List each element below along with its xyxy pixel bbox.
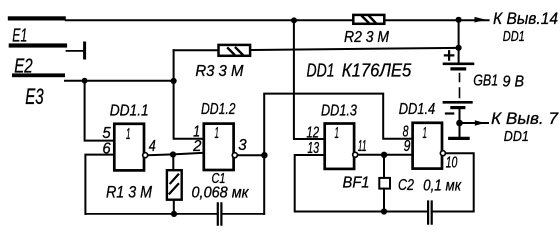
svg-text:R3 3 M: R3 3 M [195,63,244,80]
svg-text:GB1: GB1 [473,73,498,90]
svg-text:E2: E2 [14,56,33,78]
svg-text:К Выв. 7: К Выв. 7 [491,109,559,128]
svg-text:10: 10 [446,155,458,172]
svg-text:E3: E3 [25,84,44,109]
svg-text:R1 3 M: R1 3 M [106,184,152,202]
svg-text:DD1.3: DD1.3 [321,103,357,120]
svg-text:DD1.1: DD1.1 [110,103,149,120]
svg-text:С2: С2 [398,177,414,194]
svg-text:1: 1 [215,125,220,142]
svg-text:12: 12 [306,125,319,142]
svg-text:BF1: BF1 [343,175,370,192]
svg-text:13: 13 [307,140,319,157]
svg-text:3: 3 [238,137,246,154]
svg-text:DD1: DD1 [503,28,525,45]
svg-text:DD1: DD1 [307,61,335,81]
svg-text:DD1: DD1 [504,128,529,145]
svg-text:DD1.4: DD1.4 [399,101,436,118]
svg-text:0,068 мк: 0,068 мк [192,185,250,202]
svg-text:4: 4 [149,138,156,155]
svg-text:DD1.2: DD1.2 [201,101,236,118]
svg-text:R2 3 M: R2 3 M [344,29,390,46]
svg-text:К Выв.14: К Выв.14 [493,9,558,28]
svg-text:9 В: 9 В [503,74,525,91]
svg-text:E1: E1 [12,25,27,46]
svg-text:1: 1 [335,125,340,142]
svg-text:9: 9 [404,138,411,155]
svg-text:К176ЛЕ5: К176ЛЕ5 [342,61,412,81]
svg-text:1: 1 [126,126,131,143]
svg-text:0,1 мк: 0,1 мк [423,178,462,195]
svg-text:1: 1 [423,125,428,142]
svg-text:11: 11 [358,138,367,155]
svg-text:6: 6 [102,140,110,157]
svg-text:2: 2 [192,138,201,155]
